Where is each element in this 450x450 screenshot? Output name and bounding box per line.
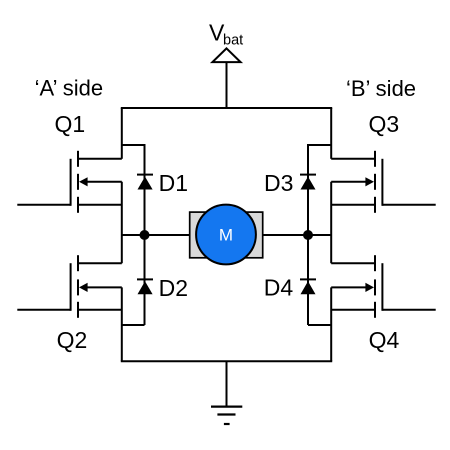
- node B junction dot: [303, 230, 313, 240]
- svg-text:Q4: Q4: [369, 327, 400, 353]
- wire D1-D2 branch vertical: [144, 145, 146, 325]
- diode D4: [300, 279, 316, 294]
- wire D3 top jog: [308, 145, 331, 175]
- transistor Q1: [17, 151, 122, 213]
- svg-text:Q2: Q2: [57, 327, 88, 353]
- svg-text:D2: D2: [159, 275, 188, 301]
- wire top rail: [121, 107, 332, 109]
- wire right edge top (rail to Q3 drain): [330, 108, 332, 159]
- svg-text:D1: D1: [159, 170, 188, 196]
- transistor Q2: [17, 255, 122, 318]
- wire right edge mid (Q3 body/source to node B to Q4 drain): [330, 182, 332, 263]
- svg-text:Q1: Q1: [54, 111, 85, 137]
- svg-text:‘B’ side: ‘B’ side: [346, 76, 416, 101]
- svg-text:‘A’ side: ‘A’ side: [35, 76, 103, 101]
- transistor Q4: [331, 255, 436, 318]
- wire left edge mid (Q1 body/source to node A to Q2 drain): [121, 182, 123, 263]
- svg-text:bat: bat: [223, 33, 243, 49]
- diode D1: [137, 175, 153, 190]
- wire bottom rail: [121, 360, 332, 362]
- transistor Q3: [331, 151, 436, 213]
- wire D1 top jog: [122, 145, 145, 175]
- diode D2: [137, 279, 153, 294]
- wire node B to motor: [262, 234, 331, 236]
- ground: [211, 361, 242, 424]
- wire D2 bottom jog: [122, 324, 145, 326]
- svg-text:D4: D4: [264, 274, 294, 300]
- wire node A to motor: [122, 234, 189, 236]
- node A junction dot: [140, 230, 150, 240]
- wire D3-D4 branch vertical: [307, 145, 309, 325]
- Vbat supply symbol: [212, 48, 240, 108]
- diode D3: [300, 175, 316, 190]
- wire left edge bottom (Q2 body/source to bottom rail): [121, 287, 123, 361]
- svg-text:D3: D3: [264, 170, 293, 196]
- motor M: [190, 205, 263, 265]
- svg-text:Q3: Q3: [369, 111, 400, 137]
- svg-text:M: M: [219, 226, 233, 245]
- wire right edge bottom (Q4 body/source to bottom rail): [330, 287, 332, 361]
- wire D4 bottom jog: [308, 324, 331, 326]
- wire left edge top (rail to Q1 drain): [121, 108, 123, 159]
